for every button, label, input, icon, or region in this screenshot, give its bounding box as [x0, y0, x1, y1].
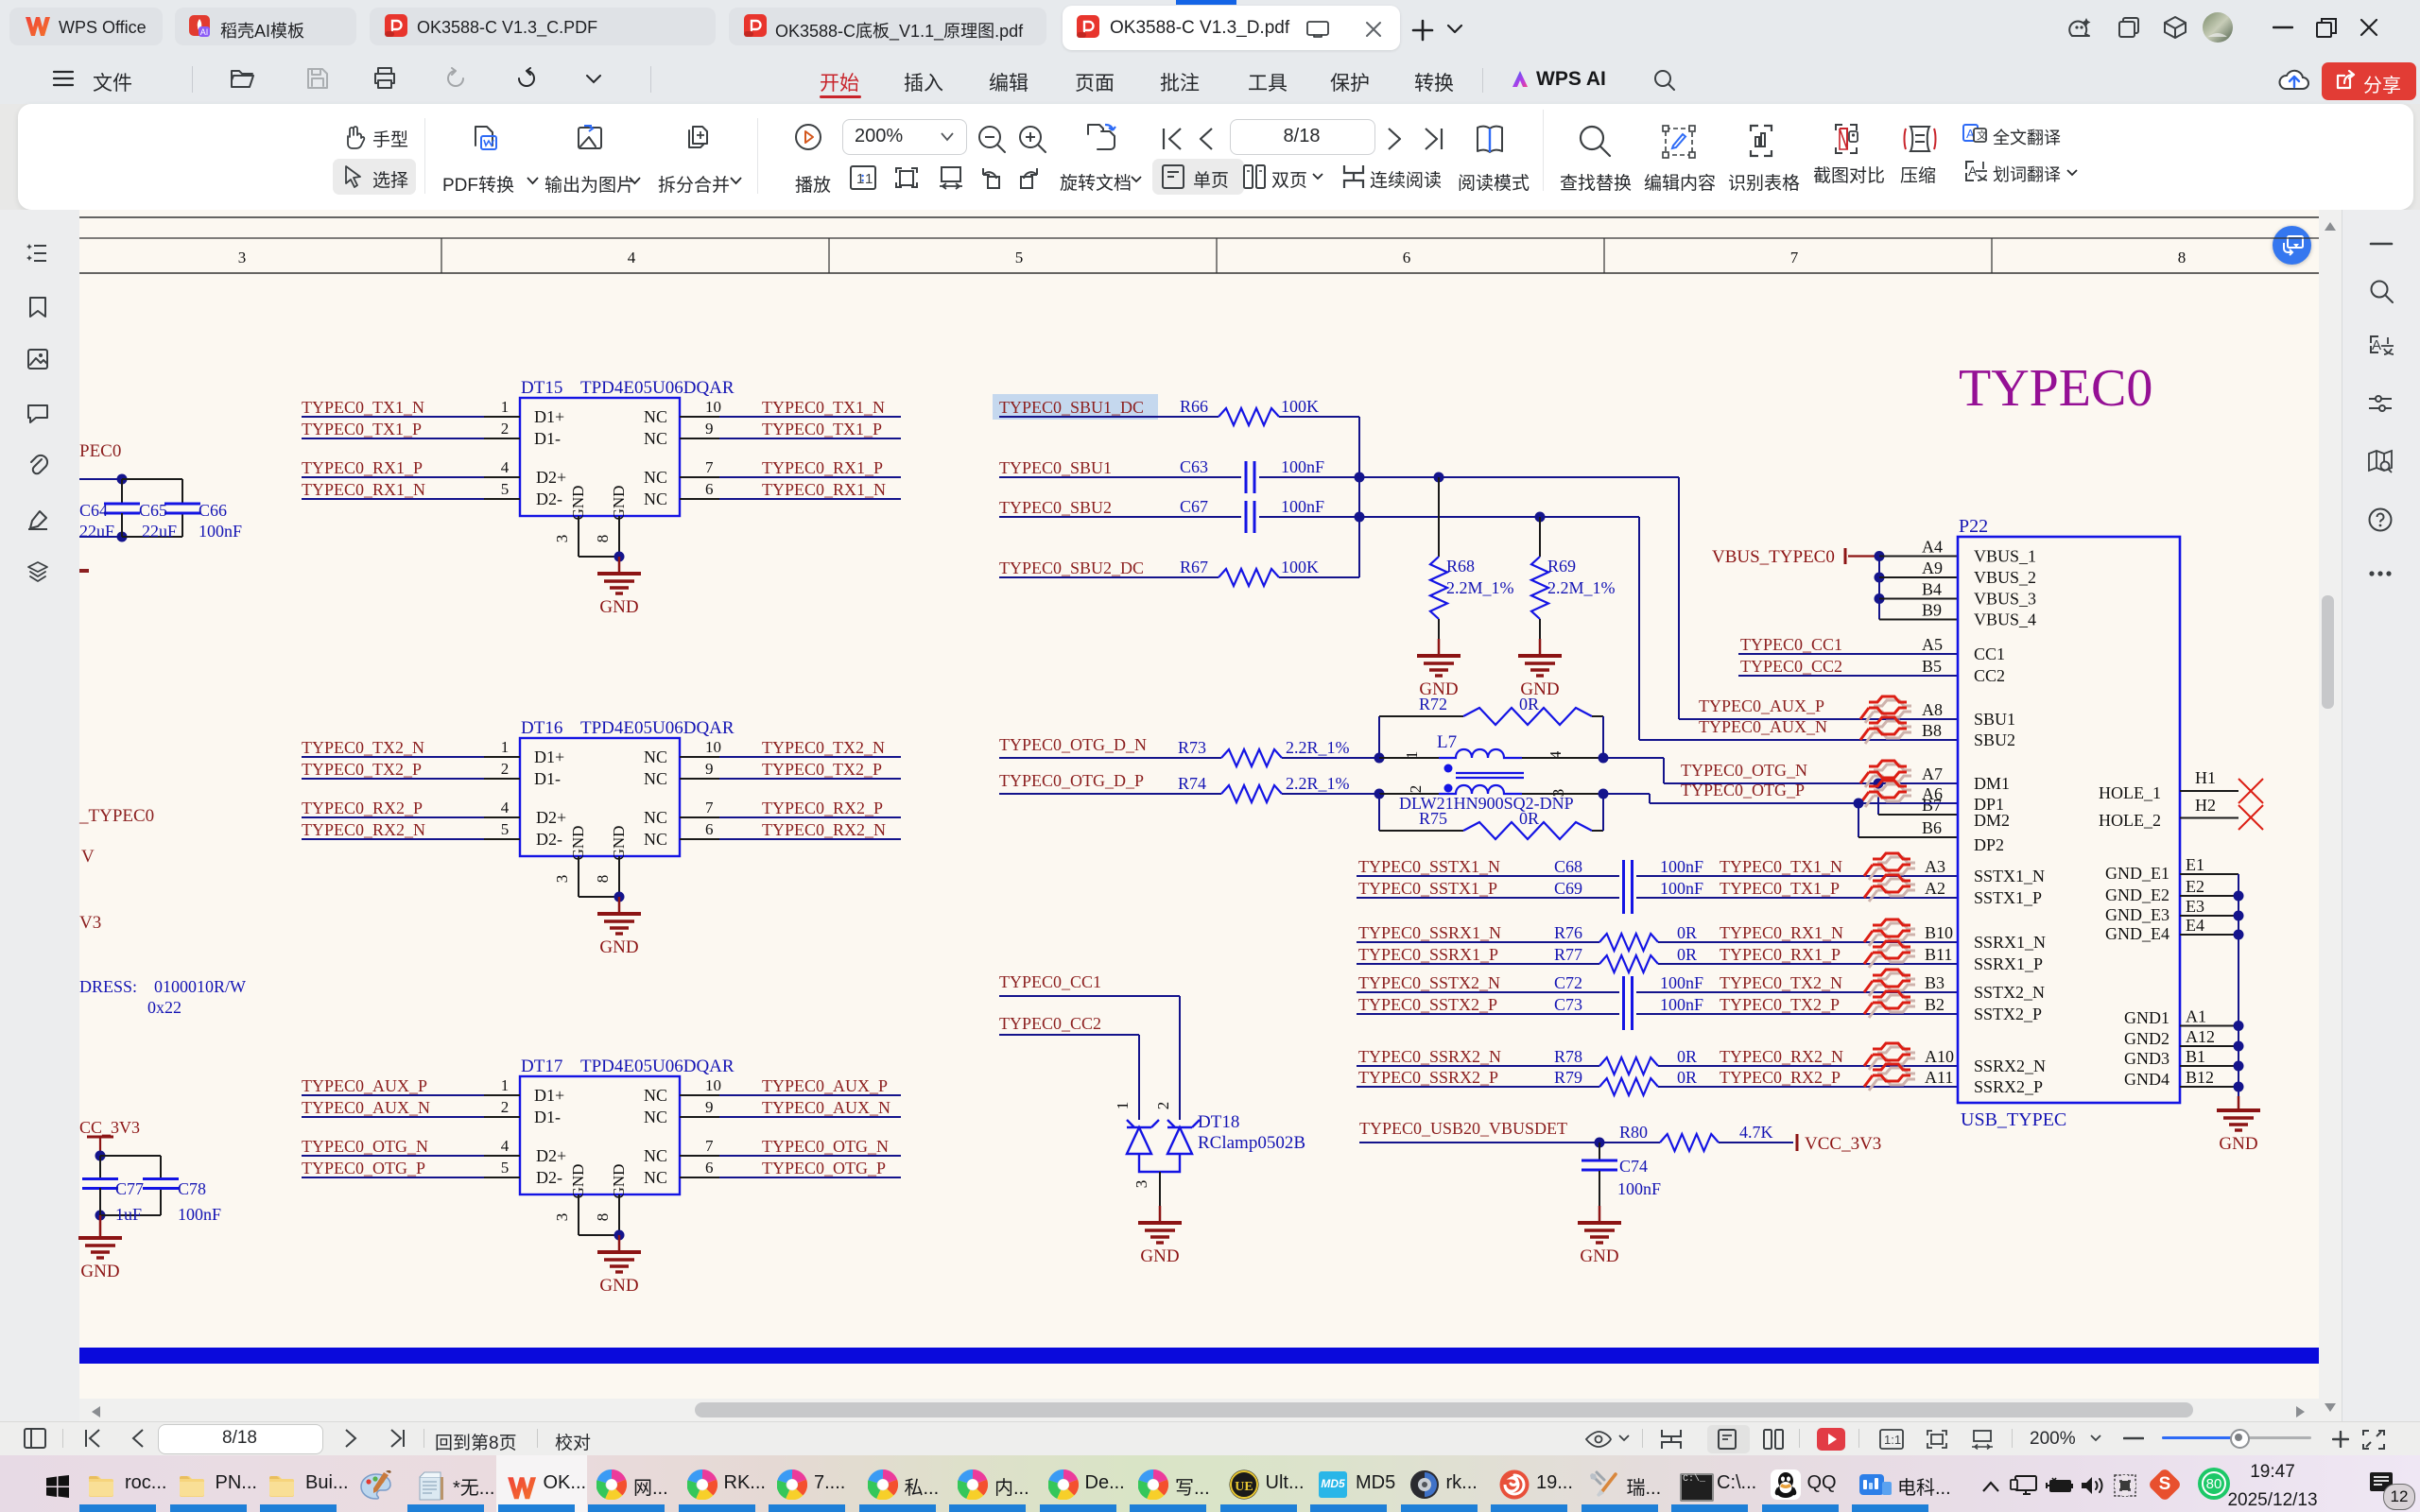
wire GND pin E1	[2180, 873, 2238, 875]
wire net TYPEC0_RX1_P (left)	[302, 476, 484, 478]
wire VBUS pin B4	[1879, 598, 1958, 600]
ESD IC DT17 TPD4E05U06DQAR	[520, 1076, 680, 1194]
DT16 pin 9 wire	[680, 778, 719, 780]
DT17 pin 10 wire	[680, 1094, 719, 1096]
ground below DT16	[618, 897, 621, 914]
wire SBU1 to connector pin A8	[1439, 476, 1679, 478]
wire net TYPEC0_AUX_P (left)	[302, 1094, 484, 1096]
DT17 pin 6 wire	[680, 1177, 719, 1178]
wire VBUS pin A4	[1879, 556, 1958, 558]
capacitor C74 100nF	[1599, 1143, 1600, 1160]
ground below connector	[2238, 1096, 2240, 1110]
DT16 pin 5 wire TYPEC0_R	[484, 838, 520, 840]
capacitor C77	[99, 1156, 101, 1179]
DT17 pin 4 wire TYPEC0_AUX	[484, 1155, 520, 1157]
DT17 pin 2 wire TYPEC0_AUX	[484, 1116, 520, 1118]
DT15 pin 9 wire	[680, 438, 719, 439]
connector P22 USB_TYPEC	[1958, 537, 2180, 1103]
selection highlight on TYPEC0_SBU1_DC	[993, 394, 1158, 420]
svg-text:1: 1	[865, 171, 873, 187]
tie DP1-DP2: junction to pin B6	[1854, 799, 1864, 809]
wire GND pin E4	[2180, 934, 2238, 936]
clamp pin 3 to ground	[1159, 1172, 1161, 1206]
ground below DT15	[618, 557, 621, 574]
DT15 pin 7 wire	[680, 476, 719, 478]
wire net TYPEC0_RX1_N (left)	[302, 498, 484, 500]
wire net TYPEC0_TX2_P (left)	[302, 778, 484, 780]
DT15 pin 4 wire TYPEC0_R	[484, 476, 520, 478]
svg-text:1:1: 1:1	[1884, 1433, 1901, 1447]
wire GND pin A1	[2180, 1025, 2238, 1027]
DT17 pin 1 wire TYPEC0_AUX	[484, 1094, 520, 1096]
VBUS rail to pins A4 A9 B4 B9	[1875, 551, 1885, 561]
svg-text:文: 文	[1977, 129, 1987, 142]
wire TYPEC0_OTG_N to pin A7	[1603, 757, 1664, 759]
wire SBU2 to connector pin B8	[1540, 516, 1639, 518]
tie DM1-DM2: junction to pin B7	[1874, 779, 1884, 789]
wire VBUS pin B9	[1879, 619, 1958, 621]
DT17 pins 3,8 to ground	[578, 1194, 579, 1235]
wire TYPEC0_OTG_P to pin A6	[1603, 793, 1650, 795]
DT15 pin 10 wire	[680, 416, 719, 418]
ground below C74	[1599, 1206, 1601, 1223]
wire GND pin B12	[2180, 1086, 2238, 1088]
ground below R68	[1438, 639, 1441, 656]
resistor R69 2.2M_1% to ground	[1539, 517, 1541, 557]
svg-text:AI: AI	[200, 27, 209, 37]
wire net TYPEC0_TX1_N (left)	[302, 416, 484, 418]
resistor R75 0R bypass	[1378, 794, 1380, 831]
ground below R69	[1539, 639, 1542, 656]
wire net TYPEC0_RX2_N (left)	[302, 838, 484, 840]
DT15 pins 3,8 to ground	[578, 516, 579, 557]
DT16 pin 2 wire TYPEC0_T	[484, 778, 520, 780]
svg-text:1: 1	[856, 171, 864, 187]
DT16 pin 6 wire	[680, 838, 719, 840]
schematic sheet header band	[79, 216, 2319, 218]
DT15 pin 5 wire TYPEC0_R	[484, 498, 520, 500]
DT15 pin 2 wire TYPEC0_T	[484, 438, 520, 439]
svg-text:UE: UE	[1235, 1480, 1253, 1494]
resistor R72 0R bypass	[1378, 716, 1380, 758]
ground below DT18	[1159, 1206, 1162, 1223]
wire net TYPEC0_AUX_N (left)	[302, 1116, 484, 1118]
DT17 pin 9 wire	[680, 1116, 719, 1118]
capacitor C65	[164, 503, 200, 506]
wire net TYPEC0_TX2_N (left)	[302, 756, 484, 758]
wire net TYPEC0_OTG_P (left)	[302, 1177, 484, 1178]
DT16 pin 4 wire TYPEC0_R	[484, 816, 520, 818]
DT17 pin 7 wire	[680, 1155, 719, 1157]
wire net TYPEC0_TX1_P (left)	[302, 438, 484, 439]
wire GND pin E3	[2180, 915, 2238, 917]
ground below C77 C78	[99, 1215, 102, 1238]
DT16 pins 3,8 to ground	[578, 856, 579, 897]
ESD IC DT15 TPD4E05U06DQAR	[520, 398, 680, 516]
wire VBUS pin A9	[1879, 576, 1958, 578]
DT15 pin 6 wire	[680, 498, 719, 500]
ground below DT17	[618, 1235, 621, 1252]
power port VCC_3V3	[1796, 1134, 1799, 1151]
capacitor C78	[143, 1177, 179, 1180]
wire GND pin B1	[2180, 1065, 2238, 1067]
DT15 pin 1 wire TYPEC0_T	[484, 416, 520, 418]
svg-text:A: A	[2372, 337, 2381, 353]
wire net TYPEC0_RX2_P (left)	[302, 816, 484, 818]
wire net TYPEC0_OTG_N (left)	[302, 1155, 484, 1157]
wire GND pin A12	[2180, 1045, 2238, 1047]
resistor R68 2.2M_1% to ground	[1438, 477, 1440, 557]
rail joining R66/R67 to SBU nets	[1358, 417, 1360, 577]
capacitor C64	[121, 479, 123, 504]
DT16 pin 1 wire TYPEC0_T	[484, 756, 520, 758]
decoupling caps C64 C65 C66 on VBUS	[79, 478, 122, 480]
ESD IC DT16 TPD4E05U06DQAR	[520, 738, 680, 856]
DT16 pin 7 wire	[680, 816, 719, 818]
DT17 pin 5 wire TYPEC0_AUX	[484, 1177, 520, 1178]
DT16 pin 10 wire	[680, 756, 719, 758]
wire GND pin E2	[2180, 895, 2238, 897]
